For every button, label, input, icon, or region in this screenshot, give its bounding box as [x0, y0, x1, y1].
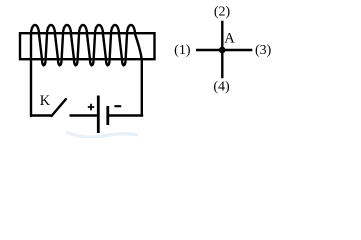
wire switch to battery — [70, 114, 98, 116]
label - — [114, 105, 121, 107]
label + — [88, 104, 94, 110]
svg-text:K: K — [40, 93, 51, 109]
wire battery to right — [109, 114, 143, 116]
compass cross arms — [196, 21, 252, 78]
core bar of solenoid L1 — [20, 33, 155, 59]
svg-text:(1): (1) — [174, 43, 191, 58]
node A dot — [219, 47, 226, 54]
watermark — [66, 132, 138, 137]
battery long plate (+) — [97, 96, 100, 134]
svg-text:A: A — [224, 31, 235, 47]
svg-text:(4): (4) — [213, 80, 230, 95]
switch K — [52, 99, 66, 116]
svg-text:(2): (2) — [214, 5, 231, 20]
coil winding — [31, 25, 142, 116]
svg-text:(3): (3) — [255, 43, 272, 58]
wire bottom left — [31, 114, 52, 116]
battery short plate (-) — [106, 106, 109, 125]
